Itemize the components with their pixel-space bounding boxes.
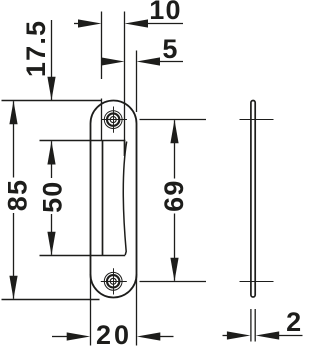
arrow dim 2 left (227, 331, 251, 339)
dim 69 extension line top (140, 119, 207, 121)
dim 17.5 line (51, 20, 53, 100)
dim 2 line right tail (277, 335, 303, 337)
latch lip curve (123, 142, 126, 256)
svg-text:2: 2 (286, 307, 302, 337)
screw hole top: inner hole (110, 117, 116, 123)
bottom edge extension line (left) (2, 299, 100, 301)
arrow dim 69 down (170, 258, 178, 282)
dim 20 line right tail (160, 336, 174, 338)
dim 69 line lower segment (174, 214, 176, 281)
arrow dim 5 left (101, 57, 125, 65)
dim 50 line lower segment (51, 214, 53, 255)
screw hole top: countersink ring (107, 113, 119, 125)
cutout top edge with left extension line (40, 140, 126, 142)
dim 50 line upper segment (51, 141, 53, 178)
arrow dim 85 up (9, 101, 17, 125)
arrow dim 50 up (47, 141, 55, 165)
arrow dim 50 down (47, 232, 55, 256)
arrow dim 10 right (125, 19, 149, 27)
svg-text:20: 20 (96, 320, 132, 350)
screw hole bottom: countersink ring (107, 275, 119, 287)
dim 10/5 extension line B (124, 12, 126, 141)
screw hole top: outer circle (104, 111, 122, 129)
arrow dim 85 down (9, 276, 17, 300)
svg-text:10: 10 (149, 0, 181, 25)
side view hole centre tick bottom (240, 281, 274, 283)
dim 85 line lower segment (13, 213, 15, 299)
cutout right edge top stub (124, 140, 126, 156)
dim 10 line left tail (74, 23, 80, 25)
dim 2 extension line right (254, 309, 256, 342)
top edge extension line (left) (2, 100, 102, 102)
svg-text:69: 69 (159, 179, 189, 211)
svg-text:5: 5 (162, 34, 178, 64)
arrow dim 2 right (256, 331, 280, 339)
dim 85 line upper segment (13, 101, 15, 177)
dim 20 line left tail (52, 336, 67, 338)
dim 5 extension line C (136, 51, 138, 113)
cutout bottom edge with left extension line (40, 255, 126, 257)
svg-text:17.5: 17.5 (21, 20, 51, 77)
dim 69 line upper segment (174, 120, 176, 178)
dim 20 extension line left (90, 274, 92, 346)
screw hole bottom: crosshair (101, 268, 127, 294)
arrow dim 10 left (78, 19, 102, 27)
side view hole centre tick top (240, 119, 274, 121)
dim 20 extension line right (136, 274, 138, 346)
svg-text:50: 50 (37, 180, 67, 212)
arrow dim 69 up (170, 120, 178, 144)
plate outline (front view stadium shape) (91, 101, 137, 298)
dim 10 line right tail (146, 23, 183, 25)
dim 2 extension line left (250, 309, 252, 342)
screw hole top: crosshair (101, 107, 127, 133)
arrow dim 17.5 down (47, 77, 55, 101)
dim 10 extension line A (with gap above plate) (101, 12, 103, 141)
dim 2 line left tail (223, 335, 229, 337)
arrow dim 5 right (137, 57, 161, 65)
screw hole bottom: outer circle (104, 272, 122, 290)
dim 5 line right tail (158, 61, 183, 63)
side view plate (thickness 2) (251, 101, 255, 298)
cutout left edge (102, 141, 104, 256)
svg-text:85: 85 (2, 179, 32, 211)
screw hole bottom: inner hole (110, 278, 116, 284)
dim 69 extension line bottom (140, 281, 207, 283)
arrow dim 20 right (137, 332, 161, 340)
arrow dim 20 left (67, 332, 91, 340)
